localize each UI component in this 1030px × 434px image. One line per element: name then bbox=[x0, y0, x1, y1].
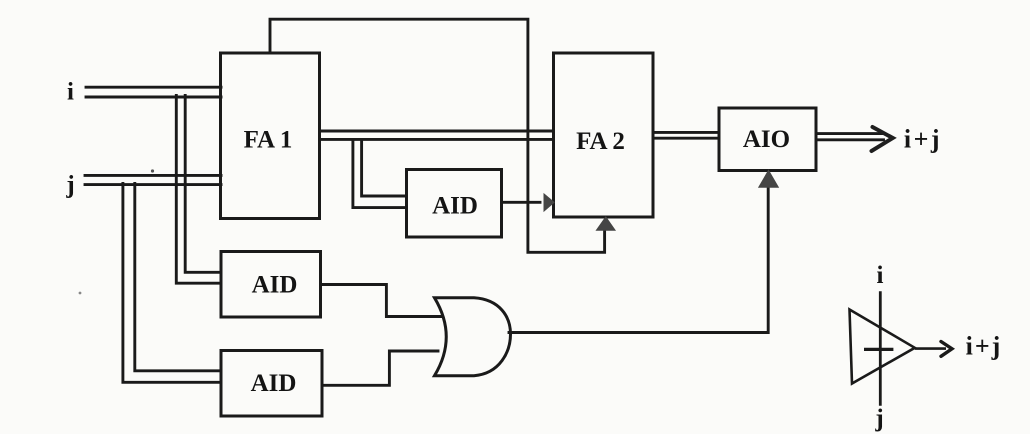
wire AIO output bus top line bbox=[816, 132, 884, 135]
arrowhead into FA2 bottom bbox=[597, 218, 615, 231]
arrowhead into FA2 left bbox=[544, 195, 553, 211]
svg-text:FA 2: FA 2 bbox=[576, 128, 625, 155]
svg-text:i+j: i+j bbox=[904, 124, 942, 153]
arrowhead chevron after AIO output bbox=[872, 127, 893, 151]
OR gate bbox=[435, 298, 511, 376]
summary symbol triangle bbox=[850, 310, 915, 384]
svg-text:AIO: AIO bbox=[743, 126, 790, 153]
summary symbol plus bar bbox=[864, 348, 893, 351]
wire bus branch outer to AID1 bbox=[353, 140, 407, 208]
speck dot near j label bbox=[151, 169, 154, 172]
wire i branch inner to AID2 bbox=[185, 96, 221, 273]
wire FA1 output bus bottom line bbox=[320, 138, 554, 141]
wire FA2 to AIO bus bottom line bbox=[653, 137, 719, 140]
svg-text:i: i bbox=[877, 262, 884, 289]
speck dot lower left bbox=[79, 292, 82, 295]
svg-text:AID: AID bbox=[251, 370, 297, 397]
svg-text:i: i bbox=[67, 79, 74, 106]
wire AID1 output to FA2 bbox=[502, 201, 541, 204]
summary symbol vertical line bbox=[879, 291, 882, 406]
svg-text:j: j bbox=[874, 405, 883, 432]
svg-text:AID: AID bbox=[432, 193, 478, 220]
svg-text:i+j: i+j bbox=[966, 332, 1003, 361]
svg-text:AID: AID bbox=[252, 272, 298, 299]
wire AIO output bus bottom line bbox=[816, 138, 884, 141]
svg-text:j: j bbox=[65, 172, 74, 199]
summary symbol output arrow shaft bbox=[915, 347, 946, 350]
wire j branch outer to AID3 bbox=[123, 184, 221, 383]
box AID1 (top) bbox=[407, 170, 502, 238]
box AID3 (bottom) bbox=[221, 351, 322, 417]
summary symbol output arrowhead bbox=[941, 342, 952, 357]
svg-text:FA 1: FA 1 bbox=[244, 126, 293, 153]
wire AID2 output to OR gate top input bbox=[321, 285, 443, 317]
box AIO bbox=[719, 108, 816, 171]
box FA2 bbox=[554, 53, 654, 217]
box FA1 bbox=[221, 53, 320, 219]
wire AID3 output to OR gate bottom input bbox=[322, 351, 438, 385]
box AID2 (middle) bbox=[221, 252, 321, 318]
wire j bus bottom line bbox=[85, 183, 221, 186]
wire OR gate output to AIO bottom bbox=[509, 188, 768, 333]
wire j bus top line bbox=[85, 174, 221, 177]
arrowhead into AIO bottom bbox=[759, 171, 778, 187]
wire FA2 to AIO bus top line bbox=[653, 131, 719, 134]
wire top loop FA1 to FA2 bottom bbox=[270, 19, 605, 252]
wire i bus top line bbox=[86, 86, 221, 89]
wire i branch outer to AID2 bbox=[176, 96, 221, 284]
wire bus branch inner to AID1 bbox=[362, 140, 407, 196]
wire i bus bottom line bbox=[86, 96, 221, 99]
wire FA1 output bus top line bbox=[320, 130, 554, 133]
wire j branch inner to AID3 bbox=[135, 184, 221, 371]
